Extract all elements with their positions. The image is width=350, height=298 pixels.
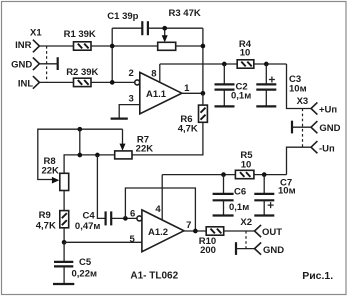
wire R8 to R9 — [63, 191, 65, 211]
ground at pin 3 — [111, 117, 128, 119]
potentiometer R3 — [158, 42, 176, 50]
svg-text:3: 3 — [129, 94, 134, 105]
X2 GND chassis bar — [235, 242, 237, 255]
svg-text:INL: INL — [18, 78, 34, 89]
svg-text:4,7K: 4,7K — [36, 221, 56, 232]
svg-text:10м: 10м — [278, 186, 296, 197]
wire R9 to pin5 node — [63, 228, 65, 243]
connector X2 pin OUT — [255, 225, 262, 237]
resistor R9 — [60, 211, 69, 228]
node junction R9/C5/pin5 — [62, 240, 67, 245]
svg-text:Рис.1.: Рис.1. — [302, 270, 333, 282]
svg-text:A1.2: A1.2 — [148, 227, 168, 238]
connector X2 dashed housing line — [245, 231, 247, 249]
capacitor C7 plus sign — [268, 202, 274, 208]
wire X2 GND — [236, 248, 255, 250]
node junction C7 rail — [262, 172, 267, 177]
svg-text:6: 6 — [130, 209, 135, 220]
node output A1.1 junction — [201, 91, 206, 96]
node junction R1/R3/C1 — [110, 44, 115, 49]
node junction C3 rail — [264, 62, 269, 67]
node junction C6 rail — [221, 172, 226, 177]
svg-text:C6: C6 — [234, 186, 246, 197]
svg-text:A1.1: A1.1 — [146, 89, 167, 100]
capacitor C5 — [63, 242, 65, 262]
svg-text:-Uп: -Uп — [319, 143, 335, 154]
ground under C7 — [254, 214, 274, 216]
svg-text:INR: INR — [15, 40, 32, 51]
potentiometer R8 — [60, 173, 69, 190]
resistor R2 — [74, 78, 92, 86]
svg-text:X3: X3 — [297, 96, 309, 107]
svg-text:R1 39K: R1 39K — [64, 29, 96, 40]
wire C4 branch vertical — [97, 155, 105, 218]
svg-text:8: 8 — [151, 68, 156, 79]
svg-text:GND: GND — [11, 59, 32, 70]
svg-text:10: 10 — [241, 160, 252, 171]
svg-text:0,1м: 0,1м — [229, 202, 249, 213]
svg-text:0,47м: 0,47м — [75, 221, 101, 232]
node junction mid line b (C4 branch) — [95, 153, 100, 158]
wire R10 to X2 — [224, 230, 255, 232]
node junction C4/pin6/feedback — [123, 216, 128, 221]
connector X1 pin GND — [33, 58, 40, 71]
wire pin 5 — [64, 241, 142, 243]
wire vertical x=79.8 — [79, 129, 81, 155]
potentiometer R7 — [115, 151, 132, 159]
wire output to R6 — [202, 93, 204, 105]
ground under C5 — [53, 283, 74, 285]
svg-text:GND: GND — [319, 123, 340, 134]
resistor R5 — [235, 170, 254, 178]
potentiometer R7 wiper — [122, 129, 124, 145]
svg-text:10: 10 — [240, 48, 251, 59]
svg-text:10м: 10м — [289, 83, 307, 94]
wire mid line left of R7 — [64, 155, 115, 173]
ground under C2 — [215, 105, 235, 107]
svg-text:X2: X2 — [240, 217, 252, 228]
node junction mid line a — [77, 153, 82, 158]
resistor R6 — [199, 105, 208, 122]
capacitor C2 — [223, 64, 225, 84]
wire INR to R1 — [39, 45, 73, 47]
X1 GND chassis bar — [57, 57, 59, 70]
wire -Un rail — [162, 174, 235, 176]
connector X2 pin GND — [255, 243, 262, 255]
connector X3 pin +Un — [311, 102, 317, 114]
node junction C2 rail — [222, 62, 227, 67]
wire C4 to pin 6 — [111, 217, 137, 219]
wire feedback vertical — [202, 28, 204, 93]
wire vertical joining INR to INL node — [111, 28, 113, 82]
connector X1 pin INR — [33, 40, 40, 53]
svg-text:R2 39K: R2 39K — [66, 67, 98, 78]
capacitor C6 — [223, 175, 225, 194]
X3 GND chassis bar — [291, 121, 293, 134]
wire pin 3 to ground — [119, 105, 140, 118]
wire A1.2 output to R10 — [184, 230, 206, 232]
svg-text:7: 7 — [186, 220, 191, 231]
connector X1 pin INL — [33, 76, 40, 89]
wire C1 rail left — [112, 27, 142, 29]
svg-text:C1 39p: C1 39p — [107, 11, 138, 22]
ground under C3 — [256, 105, 276, 107]
pin 6 inverting circle — [137, 216, 142, 221]
wire R2 to pin 2 — [91, 81, 135, 83]
svg-text:5: 5 — [130, 234, 136, 245]
svg-text:R9: R9 — [39, 210, 51, 221]
wire INL to R2 — [39, 81, 73, 83]
potentiometer R3 wiper — [164, 28, 166, 37]
svg-text:200: 200 — [200, 245, 216, 256]
wire pin 4 riser — [161, 175, 163, 220]
resistor R4 — [237, 60, 254, 68]
pin 2 inverting circle — [135, 80, 140, 85]
svg-text:4,7K: 4,7K — [178, 124, 198, 135]
svg-text:1: 1 — [184, 83, 190, 94]
svg-text:X1: X1 — [30, 27, 42, 38]
svg-text:0,22м: 0,22м — [72, 268, 98, 279]
wire GND pin to bar — [39, 63, 57, 65]
wire R1 to R3 line — [91, 45, 158, 47]
node junction INL summing — [110, 80, 115, 85]
capacitor C3 plus sign — [269, 77, 275, 83]
wire output pin 1 — [182, 92, 203, 94]
wire A1.2 feedback loop — [125, 188, 195, 231]
wire pin 8 riser — [159, 64, 161, 82]
capacitor C7 — [263, 175, 265, 194]
op-amp A1.2 — [142, 210, 184, 252]
svg-text:22K: 22K — [41, 165, 59, 176]
resistor R10 — [206, 227, 224, 235]
wire R6 bottom to mid line — [132, 122, 203, 155]
svg-text:0,1м: 0,1м — [231, 91, 251, 102]
node junction R3 feedback — [201, 44, 206, 49]
svg-text:4: 4 — [155, 204, 161, 215]
svg-text:C5: C5 — [79, 257, 92, 268]
wire R3 to feedback vertical — [176, 45, 203, 47]
connector X1 dashed housing line — [46, 46, 48, 82]
node junction wiper line — [77, 127, 82, 132]
capacitor C1 — [141, 21, 143, 35]
svg-text:OUT: OUT — [262, 227, 282, 238]
capacitor C4 — [104, 211, 106, 225]
svg-text:22K: 22K — [136, 144, 154, 155]
op-amp A1.1 — [140, 72, 182, 114]
svg-text:2: 2 — [129, 68, 134, 79]
resistor R1 — [74, 42, 92, 50]
connector X3 dashed housing line — [302, 109, 304, 148]
ground under C6 — [213, 214, 234, 216]
wire X3 GND — [292, 126, 311, 128]
capacitor C3 — [265, 64, 267, 84]
svg-text:+Uп: +Uп — [319, 104, 337, 115]
connector X3 pin -Un — [311, 141, 317, 153]
wire supply rail +Un — [160, 63, 237, 65]
wire X3 -Un — [287, 147, 312, 174]
svg-text:A1- TL062: A1- TL062 — [130, 271, 178, 282]
arrow R8 wiper — [52, 177, 59, 184]
connector X3 pin GND — [311, 121, 317, 133]
node junction A1.2 output — [193, 229, 198, 234]
wire C1 rail right — [148, 27, 203, 29]
svg-text:R3 47K: R3 47K — [169, 8, 201, 19]
wire rail to X3 +Un — [287, 64, 312, 109]
wire wiper line R8 to R7 — [38, 129, 123, 179]
svg-text:GND: GND — [263, 245, 284, 256]
